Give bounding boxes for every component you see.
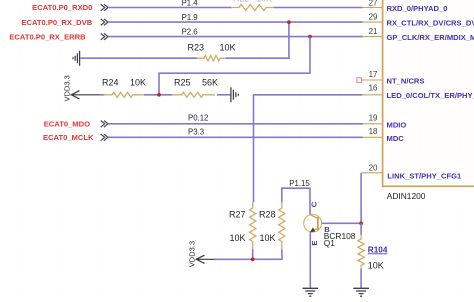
transistor Q1 BCR108 bbox=[304, 201, 356, 248]
IC pin 18 MDC bbox=[362, 127, 404, 143]
svg-text:P1.4: P1.4 bbox=[182, 0, 199, 7]
junction R24/R25/jog bbox=[157, 93, 161, 97]
svg-text:10K: 10K bbox=[260, 233, 276, 243]
svg-text:R27: R27 bbox=[229, 210, 246, 220]
resistor R24 10K bbox=[102, 77, 146, 97]
svg-text:ECAT0.P0_RX_ERRB: ECAT0.P0_RX_ERRB bbox=[9, 32, 86, 41]
wire R25 to right ground bbox=[217, 94, 231, 96]
svg-text:21: 21 bbox=[369, 27, 378, 36]
svg-text:29: 29 bbox=[369, 12, 378, 21]
IC U? ADIN1200 body bbox=[383, 0, 474, 186]
IC pin 17 NT_N/CRS with no-connect marker bbox=[357, 70, 425, 85]
svg-text:56K: 56K bbox=[202, 77, 218, 87]
resistor R22 (label cut off at top edge) bbox=[231, 0, 274, 11]
wire R24 to R25 with junction node bbox=[144, 94, 173, 96]
svg-text:R24: R24 bbox=[102, 77, 119, 87]
port ECAT0_MDO bbox=[44, 119, 108, 128]
wire R22 to pin 27 bbox=[274, 7, 363, 9]
wire Q1 emitter down to ground bbox=[309, 232, 311, 288]
svg-text:ECAT0_MDO: ECAT0_MDO bbox=[44, 119, 90, 128]
svg-text:VDD3.3: VDD3.3 bbox=[63, 75, 72, 101]
IC pin 19 MDIO bbox=[362, 114, 406, 130]
wire VDD3.3 to R24 bbox=[100, 94, 105, 96]
svg-text:ECAT0_MCLK: ECAT0_MCLK bbox=[43, 133, 94, 142]
svg-text:C: C bbox=[309, 201, 318, 207]
svg-text:ECAT0.P0_RXD0: ECAT0.P0_RXD0 bbox=[32, 3, 92, 12]
junction on P1.9 wire bbox=[287, 20, 291, 24]
svg-text:RXD_0/PHYAD_0: RXD_0/PHYAD_0 bbox=[387, 4, 448, 13]
ground (under R104) bbox=[353, 288, 369, 296]
power VDD3.3 (top) bbox=[63, 75, 101, 101]
IC pin 16 LED_0/COL/TX_ER/PHY_CFG0 bbox=[362, 84, 474, 101]
wire pin 20 down to base junction bbox=[360, 173, 362, 224]
IC pin 29 RX_CTL/RX_DV/CRS_DV bbox=[362, 12, 474, 27]
svg-text:10K: 10K bbox=[230, 233, 246, 243]
resistor R25 56K bbox=[172, 77, 218, 97]
wire net P0.12 (port to pin 19) bbox=[108, 113, 363, 123]
IC pin 20 LINK_ST/PHY_CFG1 bbox=[361, 163, 462, 180]
svg-text:GP_CLK/RX_ER/MDIX_MODE: GP_CLK/RX_ER/MDIX_MODE bbox=[387, 33, 474, 42]
wire net P1.4 (port to R22) bbox=[108, 0, 232, 8]
svg-text:VDD3.3: VDD3.3 bbox=[188, 241, 197, 267]
resistor R27 10K bbox=[229, 202, 256, 250]
wire net P2.6 (port to pin 21) bbox=[108, 28, 363, 37]
svg-text:LINK_ST/PHY_CFG1: LINK_ST/PHY_CFG1 bbox=[387, 171, 462, 180]
svg-text:27: 27 bbox=[369, 0, 378, 8]
resistor R23 10K bbox=[188, 43, 236, 61]
svg-text:18: 18 bbox=[369, 127, 378, 136]
junction base/pin20/R104 bbox=[359, 221, 363, 225]
IC pin 27 RXD_0/PHYAD_0 bbox=[362, 0, 447, 13]
svg-text:MDIO: MDIO bbox=[387, 120, 407, 129]
svg-text:Q1: Q1 bbox=[324, 238, 336, 248]
ground (right of R25) bbox=[231, 87, 239, 102]
svg-text:16: 16 bbox=[369, 84, 378, 93]
svg-text:P2.6: P2.6 bbox=[182, 28, 198, 37]
power VDD3.3 (bottom) bbox=[188, 241, 215, 267]
port ECAT0.P0_RX_ERRB bbox=[9, 32, 108, 41]
resistor R104 10K bbox=[358, 223, 388, 270]
svg-text:ADIN1200: ADIN1200 bbox=[387, 191, 426, 201]
svg-text:E: E bbox=[310, 241, 319, 246]
IC pin 21 GP_CLK/RX_ER/MDIX_MODE bbox=[362, 27, 474, 42]
svg-text:R28: R28 bbox=[259, 210, 276, 220]
svg-text:10K: 10K bbox=[220, 43, 236, 53]
svg-text:R23: R23 bbox=[188, 43, 205, 53]
svg-text:P1.15: P1.15 bbox=[289, 179, 310, 188]
svg-text:P1.9: P1.9 bbox=[182, 13, 198, 22]
svg-text:19: 19 bbox=[369, 114, 378, 123]
resistor R28 10K bbox=[259, 202, 285, 250]
ground (under Q1 emitter) bbox=[303, 288, 319, 296]
junction R27 bottom on rail bbox=[251, 257, 255, 261]
svg-text:ECAT0.P0_RX_DVB: ECAT0.P0_RX_DVB bbox=[21, 18, 92, 27]
svg-text:R22: R22 bbox=[233, 0, 250, 3]
svg-text:P0.12: P0.12 bbox=[188, 113, 208, 122]
wire R23 right, up to junction on P1.9 wire bbox=[226, 22, 289, 58]
svg-text:10K: 10K bbox=[368, 261, 384, 271]
port ECAT0.P0_RXD0 bbox=[32, 3, 108, 12]
wire bottom rail VDD3.3 to R27/R28 bottoms bbox=[215, 249, 283, 259]
junction on P2.6 wire bbox=[308, 35, 312, 39]
wire net P3.3 (port to pin 18) bbox=[108, 127, 363, 137]
svg-text:RX_CTL/RX_DV/CRS_DV: RX_CTL/RX_DV/CRS_DV bbox=[387, 19, 474, 28]
svg-text:MDC: MDC bbox=[387, 134, 405, 143]
wire pin16 LED_0 net: corner at x=253.5 down to R27 bbox=[254, 95, 363, 203]
wire R104 bottom to ground bbox=[360, 269, 362, 289]
svg-text:NT_N/CRS: NT_N/CRS bbox=[387, 76, 425, 85]
wire net P1.15: R28 top up, right, down to Q1 collector bbox=[282, 179, 311, 215]
svg-text:P3.3: P3.3 bbox=[188, 127, 204, 136]
port ECAT0_MCLK bbox=[43, 133, 108, 142]
wire net P1.9 (port to pin 29) bbox=[108, 13, 363, 22]
svg-text:LED_0/COL/TX_ER/PHY_C: LED_0/COL/TX_ER/PHY_C bbox=[387, 91, 474, 100]
IC designator ADIN1200 bbox=[387, 191, 426, 201]
wire R27 bottom to rail junction bbox=[252, 249, 254, 259]
svg-text:R104: R104 bbox=[368, 245, 388, 254]
ground (left of R23) bbox=[73, 51, 80, 66]
wire jog from P2.6 junction down-left to R24/R25 junction bbox=[159, 37, 310, 95]
wire Q1 base to junction bbox=[322, 222, 362, 224]
svg-text:20: 20 bbox=[369, 163, 378, 172]
svg-text:10K: 10K bbox=[256, 0, 272, 3]
svg-text:17: 17 bbox=[369, 70, 378, 79]
port ECAT0.P0_RX_DVB bbox=[21, 18, 108, 27]
wire ground to R23 bbox=[80, 57, 197, 59]
svg-text:10K: 10K bbox=[130, 77, 146, 87]
svg-text:R25: R25 bbox=[174, 77, 191, 87]
